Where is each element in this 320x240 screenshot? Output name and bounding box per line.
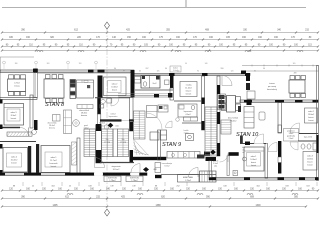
svg-text:10.1m2: 10.1m2 <box>113 169 121 171</box>
svg-text:tus: tus <box>242 151 244 154</box>
small label box above wall <box>170 66 181 72</box>
stairs3 level marker <box>210 150 216 155</box>
arc at wall x172 <box>166 121 173 128</box>
vestibule steps <box>200 171 217 182</box>
stan9 stair flight (middle) <box>134 111 146 139</box>
stan10 hall wall y133 <box>299 133 318 135</box>
stan10 east wall <box>317 66 319 181</box>
svg-text:260: 260 <box>221 68 224 70</box>
kitchen island stan8 <box>77 80 94 98</box>
svg-text:konstrukciji: konstrukciji <box>267 88 277 91</box>
terrace dining table left <box>8 79 26 92</box>
level mark <box>143 167 149 172</box>
right terrace table <box>289 80 305 93</box>
bottom dimension line 3 <box>2 206 306 208</box>
stan9 south-east wall corner <box>197 155 205 159</box>
bedroom door arc <box>111 98 119 106</box>
right terrace lines <box>242 65 319 67</box>
svg-text:bracni: bracni <box>308 116 314 119</box>
entry label box 1 <box>104 176 121 182</box>
stan10 corridor door arc <box>222 76 232 86</box>
svg-text:1 soba: 1 soba <box>185 85 192 87</box>
stan9 wc corner fixtures <box>155 163 161 173</box>
svg-text:terasa: terasa <box>269 82 275 85</box>
svg-text:90: 90 <box>165 68 167 70</box>
svg-text:STAN 10: STAN 10 <box>236 132 259 138</box>
svg-text:dnevna: dnevna <box>81 115 88 117</box>
stan9 entry big arc <box>146 113 162 129</box>
bottom dimension line 1 <box>2 190 318 192</box>
svg-text:krevet: krevet <box>11 162 17 165</box>
bedroom3 east wall <box>30 95 33 128</box>
stan10 bedroom east wall <box>265 144 268 179</box>
svg-text:90: 90 <box>185 63 187 65</box>
window marks row <box>37 51 43 53</box>
stan9 door arc <box>189 168 199 178</box>
svg-text:13.6m2: 13.6m2 <box>308 114 314 116</box>
svg-text:3.6m2: 3.6m2 <box>173 70 178 72</box>
svg-text:kupa 4.5m2: kupa 4.5m2 <box>304 137 312 139</box>
stairwell west wall lower <box>96 125 102 163</box>
svg-text:francuski: francuski <box>49 163 58 165</box>
stan8 stair flight A <box>84 129 96 157</box>
stan10 door arc mid <box>290 123 300 133</box>
stan9 kitchen row <box>167 152 200 159</box>
east stairwell wall <box>217 76 220 156</box>
svg-text:10.4m2: 10.4m2 <box>11 160 19 162</box>
stan9 wc <box>186 134 194 141</box>
svg-text:8.1m2: 8.1m2 <box>165 166 170 168</box>
bottom exterior wall right wing <box>209 177 318 180</box>
soba2 room <box>3 148 28 173</box>
svg-text:kupaonica: kupaonica <box>184 111 194 113</box>
top exterior wall left wing <box>0 70 134 72</box>
svg-text:13.6m2: 13.6m2 <box>111 87 117 89</box>
top exterior wall right wing <box>134 73 250 75</box>
top dimension line 1 <box>2 32 318 34</box>
stan10 entry door arc <box>220 154 229 163</box>
svg-text:bracni: bracni <box>307 161 313 164</box>
mid fixtures cluster <box>147 106 158 118</box>
top tick x186 <box>185 0 187 7</box>
stairwell east wall x130 black top <box>131 70 135 98</box>
svg-text:bracni: bracni <box>186 91 192 93</box>
bedroom south wall <box>95 97 130 99</box>
connector wall stan9/10 <box>209 161 211 178</box>
pier below window <box>34 120 38 130</box>
stan9 west top wall x170 <box>170 73 174 88</box>
svg-text:soba 3: soba 3 <box>10 112 17 114</box>
stan9 table <box>150 132 159 140</box>
stairs flight right <box>117 129 128 157</box>
stairs flight east <box>205 107 217 156</box>
svg-text:90: 90 <box>263 68 265 70</box>
stan9 bedroom label box <box>180 82 197 97</box>
soba1 room <box>41 146 70 173</box>
vestibule label box <box>178 175 200 183</box>
stan10 tall cabinet <box>218 94 226 110</box>
stan10 bedroom top wall <box>240 143 254 145</box>
stan10 terrace wall <box>240 100 318 102</box>
stair stringer <box>113 129 117 157</box>
svg-text:0.00: 0.00 <box>115 125 118 127</box>
wall piers (black) <box>33 69 38 73</box>
stan9 cabinets <box>161 130 167 140</box>
svg-text:140: 140 <box>205 63 208 65</box>
stan10 bed <box>244 147 264 171</box>
svg-text:bracni: bracni <box>112 89 118 92</box>
stan9 mid wall <box>174 100 201 102</box>
sofa <box>64 110 72 134</box>
svg-text:8.3m2: 8.3m2 <box>11 115 17 117</box>
svg-text:STAN 9: STAN 9 <box>162 142 181 148</box>
stan10 right room label box <box>303 152 317 171</box>
terrace top edge left <box>0 56 34 58</box>
svg-text:16x: 16x <box>106 139 109 141</box>
svg-text:4.5m2: 4.5m2 <box>185 114 190 116</box>
svg-text:1.78m2: 1.78m2 <box>131 180 137 182</box>
svg-text:terasa: terasa <box>14 85 20 88</box>
svg-text:po ravnoj: po ravnoj <box>268 86 277 88</box>
svg-text:soba 2: soba 2 <box>308 111 314 113</box>
svg-text:soba 2: soba 2 <box>112 84 118 86</box>
terrace left edge <box>0 57 2 98</box>
tv stand <box>53 115 61 122</box>
svg-text:1300: 1300 <box>255 205 261 207</box>
stan9 bathroom <box>178 104 197 117</box>
svg-text:90: 90 <box>197 71 199 73</box>
stan9 sideboard <box>184 117 198 121</box>
stan9 bottom wall <box>161 174 216 176</box>
top dimension line 3 <box>2 46 318 48</box>
stairhall south black bar <box>132 157 166 160</box>
svg-text:krevet: krevet <box>11 117 17 120</box>
svg-text:165: 165 <box>293 63 296 65</box>
stan10 hall label boxes <box>284 129 299 142</box>
stan10 west wall piece <box>240 136 243 144</box>
stan10 wall x278 black low <box>278 141 281 157</box>
axis line A <box>106 28 108 208</box>
dining table stan8 <box>44 79 64 98</box>
landing black chunk <box>168 93 173 98</box>
svg-text:dnevna: dnevna <box>49 128 55 130</box>
stan10 entry east wall <box>227 156 229 176</box>
svg-text:balkon: balkon <box>173 68 178 70</box>
bottom dimension line 2 <box>2 198 318 200</box>
terrace/living separator wall <box>34 69 37 73</box>
svg-text:1388: 1388 <box>155 205 161 207</box>
stan10 top-right bathroom box <box>305 108 318 123</box>
bedroom soba3 bed <box>4 104 24 126</box>
svg-text:soba 2: soba 2 <box>11 157 18 159</box>
stairwell south wall <box>100 162 134 164</box>
svg-text:2.4m2: 2.4m2 <box>289 138 294 140</box>
left edge wall chunks <box>0 100 3 104</box>
stan10 bedroom door arc <box>268 143 277 152</box>
svg-text:90: 90 <box>114 68 116 70</box>
svg-text:hodnik: hodnik <box>99 123 105 125</box>
stan10 bath fixtures right <box>290 142 298 150</box>
soba1 east wall <box>77 138 80 174</box>
svg-text:17.5/28: 17.5/28 <box>120 142 126 144</box>
svg-text:488: 488 <box>294 73 297 75</box>
svg-text:soba 1: soba 1 <box>251 156 257 158</box>
wall between soba2/soba1 <box>28 146 31 173</box>
svg-text:STAN 8: STAN 8 <box>45 102 65 108</box>
bathroom 2m2 stan8 <box>141 76 160 89</box>
svg-text:207: 207 <box>146 68 149 70</box>
entry door gaps <box>94 172 103 176</box>
stan10 entry black bar <box>229 152 239 156</box>
corridor closet <box>7 132 32 136</box>
stan9 west wall lower <box>158 130 161 160</box>
top border line <box>2 7 306 9</box>
wc stan8 fixtures <box>101 100 106 104</box>
svg-text:krevet: krevet <box>51 165 57 168</box>
wc south wall <box>100 119 122 121</box>
svg-text:4.6m2: 4.6m2 <box>99 126 104 128</box>
winder steps fan <box>134 139 138 155</box>
svg-text:ulaz: ulaz <box>214 166 217 168</box>
svg-text:195: 195 <box>79 63 82 65</box>
svg-text:krevet: krevet <box>307 164 313 167</box>
stan10 dining table <box>227 96 236 113</box>
svg-text:dnevni blok: dnevni blok <box>228 118 238 120</box>
svg-text:4.4m2: 4.4m2 <box>84 128 89 130</box>
stan10 interior wall x278 upper <box>278 103 281 133</box>
svg-text:320: 320 <box>47 63 50 65</box>
stan10 kitchen counter column <box>244 107 254 129</box>
stan10 sink rect <box>259 112 265 120</box>
wall x97.5 living/bedroom black <box>98 76 103 98</box>
stair top marker <box>108 123 114 128</box>
bedroom3 south wall + door <box>0 127 20 129</box>
top dimension line 4 <box>2 50 318 52</box>
stan10 wardrobe shelves <box>221 120 231 134</box>
stan10 shaft blocks <box>246 74 250 81</box>
svg-text:1495: 1495 <box>52 205 58 207</box>
svg-text:120: 120 <box>231 71 234 73</box>
svg-text:105: 105 <box>157 71 160 73</box>
svg-text:soba 1: soba 1 <box>50 157 57 159</box>
corridor south wall <box>0 141 36 143</box>
svg-text:17.5/28: 17.5/28 <box>104 142 110 144</box>
top dimension line 2 <box>2 39 318 41</box>
svg-text:kupaonica: kupaonica <box>109 116 119 118</box>
svg-text:11.4m2: 11.4m2 <box>185 88 192 90</box>
svg-text:1.78m2: 1.78m2 <box>109 180 115 182</box>
svg-text:stepeniste: stepeniste <box>111 165 121 168</box>
svg-text:14.6m2: 14.6m2 <box>250 159 256 161</box>
bottom exterior wall left wing <box>0 173 147 176</box>
svg-text:4.7m2: 4.7m2 <box>14 83 20 85</box>
soba1 wardrobe strip <box>72 142 77 165</box>
svg-text:16x: 16x <box>122 139 125 141</box>
bottom window arc marks <box>67 194 73 196</box>
svg-text:krevet: krevet <box>308 119 314 122</box>
terrace bottom wall <box>0 98 37 100</box>
stairs flight left <box>102 129 114 157</box>
stan9 east wall <box>202 76 205 130</box>
svg-text:APARTMAN: APARTMAN <box>183 176 194 179</box>
svg-text:krevet: krevet <box>251 164 257 167</box>
svg-text:1.78m2: 1.78m2 <box>185 180 191 182</box>
sideboard below kitchen <box>77 105 93 109</box>
svg-text:soba 3: soba 3 <box>307 156 313 158</box>
stan8 bedroom soba2u <box>104 77 127 96</box>
svg-text:60: 60 <box>139 71 141 73</box>
svg-text:krevet: krevet <box>186 93 192 96</box>
svg-text:180: 180 <box>15 63 18 65</box>
svg-text:bracni: bracni <box>251 161 257 164</box>
svg-text:11.7m2: 11.7m2 <box>50 160 57 162</box>
entry label box 2 <box>126 176 143 182</box>
axis marker circles <box>3 61 6 64</box>
svg-text:11.8m2: 11.8m2 <box>307 159 313 161</box>
stan10 entry fixture <box>233 171 238 176</box>
entry door arcs <box>95 158 105 168</box>
kitchen counter stan8 <box>70 80 76 99</box>
round table <box>73 120 80 127</box>
